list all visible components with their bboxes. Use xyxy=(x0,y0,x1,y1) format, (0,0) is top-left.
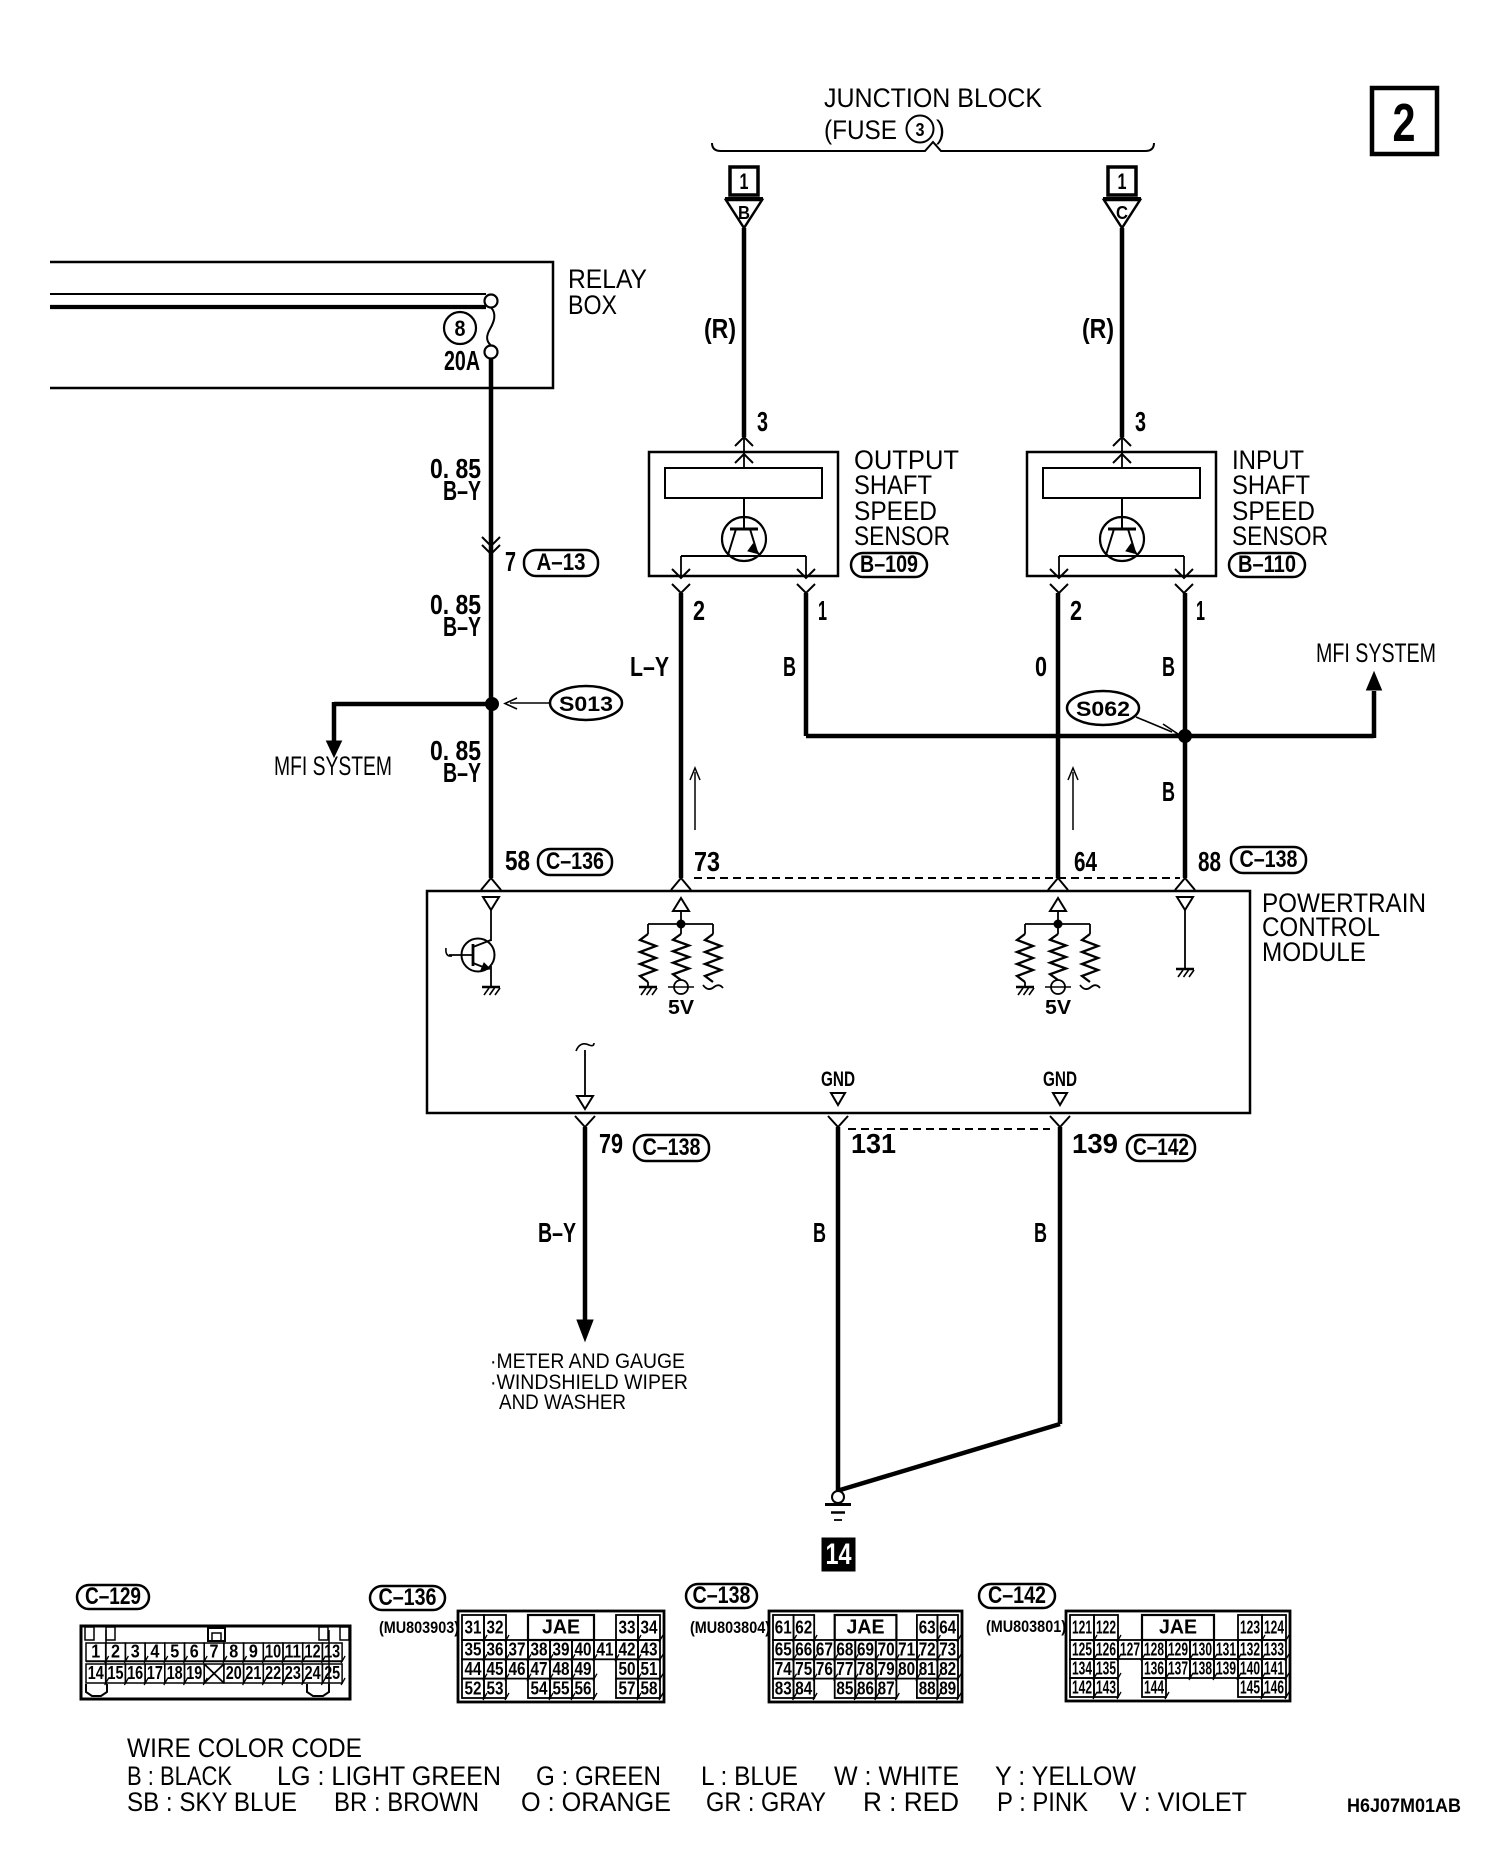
svg-text:74: 74 xyxy=(775,1659,792,1679)
PCM top pin chevrons xyxy=(481,878,501,890)
svg-text:SB : SKY BLUE: SB : SKY BLUE xyxy=(127,1787,297,1817)
svg-text:123: 123 xyxy=(1240,1618,1260,1638)
svg-text:33: 33 xyxy=(619,1618,636,1638)
svg-text:136: 136 xyxy=(1144,1659,1164,1679)
svg-text:B–Y: B–Y xyxy=(443,475,481,506)
svg-text:(R): (R) xyxy=(1082,313,1114,344)
connector C-138 pinout xyxy=(769,1611,962,1702)
svg-text:54: 54 xyxy=(531,1678,548,1698)
splice S062 junction dot xyxy=(1178,729,1192,743)
svg-text:B: B xyxy=(738,203,750,223)
svg-text:7: 7 xyxy=(505,546,516,577)
svg-text:S013: S013 xyxy=(559,693,613,716)
svg-text:14: 14 xyxy=(88,1663,104,1683)
svg-text:15: 15 xyxy=(108,1663,124,1683)
svg-text:44: 44 xyxy=(465,1659,482,1679)
splice S013 junction dot xyxy=(485,697,499,711)
svg-text:1: 1 xyxy=(818,595,827,626)
svg-text:JAE: JAE xyxy=(847,1617,885,1639)
svg-text:69: 69 xyxy=(857,1640,874,1660)
pin 3 chevrons output sensor xyxy=(735,437,753,446)
svg-text:O : ORANGE: O : ORANGE xyxy=(521,1787,671,1817)
connector C-129 label xyxy=(77,1585,149,1609)
svg-text:58: 58 xyxy=(505,845,530,876)
signal direction arrow near 64 xyxy=(1072,772,1074,830)
svg-text:71: 71 xyxy=(898,1640,915,1660)
svg-text:BR : BROWN: BR : BROWN xyxy=(334,1787,479,1817)
svg-text:75: 75 xyxy=(795,1659,812,1679)
svg-text:143: 143 xyxy=(1096,1678,1116,1698)
svg-text:134: 134 xyxy=(1072,1659,1092,1679)
svg-text:BOX: BOX xyxy=(568,290,617,320)
connector C-129 pinout xyxy=(81,1626,350,1699)
output shaft speed sensor box B-109 xyxy=(649,452,838,576)
svg-text:52: 52 xyxy=(465,1678,482,1698)
pin 3 chevrons input sensor xyxy=(1113,437,1131,446)
svg-text:(MU803804): (MU803804) xyxy=(690,1618,770,1637)
wire to MFI SYSTEM (left) xyxy=(334,702,492,707)
wire 79 B-Y to meter and gauge xyxy=(583,1127,588,1322)
svg-text:(MU803801): (MU803801) xyxy=(986,1617,1066,1636)
svg-text:20A: 20A xyxy=(444,345,480,376)
svg-text:133: 133 xyxy=(1264,1640,1284,1660)
svg-text:C–136: C–136 xyxy=(379,1584,437,1611)
svg-text:R : RED: R : RED xyxy=(863,1787,959,1817)
svg-text:14: 14 xyxy=(826,1538,852,1571)
svg-text:·METER AND GAUGE: ·METER AND GAUGE xyxy=(490,1350,685,1373)
svg-text:11: 11 xyxy=(285,1642,301,1662)
wire 139 B to ground 14 xyxy=(1058,1127,1063,1424)
svg-text:66: 66 xyxy=(795,1640,812,1660)
fuse 8 20A xyxy=(485,295,498,308)
PCM 5V pull-up network (pin 64) xyxy=(1050,898,1066,911)
svg-text:34: 34 xyxy=(641,1618,658,1638)
svg-text:P : PINK: P : PINK xyxy=(997,1787,1088,1817)
svg-text:58: 58 xyxy=(641,1678,658,1698)
svg-text:65: 65 xyxy=(775,1640,792,1660)
svg-text:12: 12 xyxy=(305,1642,321,1662)
svg-text:131: 131 xyxy=(851,1128,896,1159)
input shaft speed sensor box B-110 xyxy=(1027,452,1216,576)
svg-text:5: 5 xyxy=(170,1642,179,1662)
svg-text:77: 77 xyxy=(836,1659,853,1679)
svg-text:24: 24 xyxy=(305,1663,321,1683)
PCM transistor ground xyxy=(482,986,500,989)
svg-text:129: 129 xyxy=(1168,1640,1188,1660)
svg-text:C–142: C–142 xyxy=(1133,1134,1189,1161)
wire output pin1 B to splice S062 and MFI xyxy=(804,593,809,736)
connector tag 1-B xyxy=(730,167,758,195)
svg-text:22: 22 xyxy=(265,1663,281,1683)
svg-text:(R): (R) xyxy=(704,313,736,344)
svg-text:3: 3 xyxy=(131,1642,140,1662)
svg-text:JAE: JAE xyxy=(542,1617,580,1639)
svg-text:1: 1 xyxy=(91,1642,100,1662)
svg-text:86: 86 xyxy=(857,1678,874,1698)
svg-text:137: 137 xyxy=(1168,1659,1188,1679)
svg-text:145: 145 xyxy=(1240,1678,1260,1698)
svg-text:140: 140 xyxy=(1240,1659,1260,1679)
svg-text:3: 3 xyxy=(757,406,768,437)
wire input pin1 B to splice S062 xyxy=(1183,593,1188,878)
wire 131 B to ground 14 xyxy=(836,1127,841,1491)
svg-text:135: 135 xyxy=(1096,1659,1116,1679)
PCM transistor Q1 xyxy=(462,939,495,972)
PCM bottom pin chevrons xyxy=(575,1116,595,1127)
dashed connector line C-138 top xyxy=(694,877,1180,879)
svg-text:83: 83 xyxy=(775,1678,792,1698)
svg-text:38: 38 xyxy=(531,1640,548,1660)
svg-text:17: 17 xyxy=(147,1663,163,1683)
svg-text:25: 25 xyxy=(324,1663,340,1683)
splice tag S062 xyxy=(1067,691,1139,725)
svg-text:GR : GRAY: GR : GRAY xyxy=(706,1787,826,1817)
svg-text:WIRE COLOR CODE: WIRE COLOR CODE xyxy=(127,1733,362,1763)
svg-text:35: 35 xyxy=(465,1640,482,1660)
inline connector A-13 pin 7 chevrons xyxy=(482,537,500,546)
connector C-142 label xyxy=(979,1584,1055,1608)
svg-text:142: 142 xyxy=(1072,1678,1092,1698)
svg-text:72: 72 xyxy=(919,1640,936,1660)
svg-text:2: 2 xyxy=(111,1642,120,1662)
svg-text:B–Y: B–Y xyxy=(443,611,481,642)
svg-text:121: 121 xyxy=(1072,1618,1092,1638)
svg-text:1: 1 xyxy=(1118,169,1127,194)
svg-text:JAE: JAE xyxy=(1159,1617,1197,1639)
wire output pin2 L-Y to PCM 73 xyxy=(679,593,684,878)
svg-text:122: 122 xyxy=(1096,1618,1116,1638)
svg-text:87: 87 xyxy=(878,1678,895,1698)
svg-text:L–Y: L–Y xyxy=(630,651,669,682)
svg-text:1: 1 xyxy=(740,169,749,194)
wire input pin2 O to PCM 64 xyxy=(1056,593,1061,878)
svg-text:2: 2 xyxy=(693,595,705,626)
svg-text:138: 138 xyxy=(1192,1659,1212,1679)
svg-text:41: 41 xyxy=(597,1640,614,1660)
svg-text:40: 40 xyxy=(575,1640,592,1660)
svg-text:39: 39 xyxy=(553,1640,570,1660)
page number box 2 xyxy=(1372,88,1437,154)
svg-text:144: 144 xyxy=(1144,1678,1164,1698)
svg-text:SENSOR: SENSOR xyxy=(1232,521,1328,551)
svg-text:64: 64 xyxy=(939,1618,956,1638)
svg-text:131: 131 xyxy=(1216,1640,1236,1660)
svg-text:B–Y: B–Y xyxy=(443,757,481,788)
connector C-138 label xyxy=(686,1584,757,1608)
svg-text:(MU803903): (MU803903) xyxy=(379,1618,459,1637)
svg-text:88: 88 xyxy=(1198,846,1221,877)
svg-text:127: 127 xyxy=(1120,1640,1140,1660)
svg-text:SENSOR: SENSOR xyxy=(854,521,950,551)
svg-text:51: 51 xyxy=(641,1659,658,1679)
svg-text:76: 76 xyxy=(816,1659,833,1679)
svg-text:(FUSE: (FUSE xyxy=(824,115,897,145)
svg-text:139: 139 xyxy=(1072,1128,1118,1159)
svg-text:C–138: C–138 xyxy=(643,1134,701,1161)
svg-text:62: 62 xyxy=(795,1618,812,1638)
MFI SYSTEM arrow (right) xyxy=(1367,672,1382,690)
svg-text:132: 132 xyxy=(1240,1640,1260,1660)
svg-text:82: 82 xyxy=(939,1659,956,1679)
svg-text:MFI SYSTEM: MFI SYSTEM xyxy=(274,751,392,781)
svg-text:16: 16 xyxy=(127,1663,143,1683)
PCM pin 58 input triangle xyxy=(483,897,499,910)
svg-text:73: 73 xyxy=(694,846,720,877)
svg-text:B: B xyxy=(1162,651,1175,682)
svg-text:124: 124 xyxy=(1264,1618,1284,1638)
svg-text:AND WASHER: AND WASHER xyxy=(499,1391,626,1414)
svg-text:31: 31 xyxy=(465,1618,482,1638)
svg-text:68: 68 xyxy=(836,1640,853,1660)
svg-text:56: 56 xyxy=(575,1678,592,1698)
svg-text:3: 3 xyxy=(916,120,925,140)
svg-text:47: 47 xyxy=(531,1659,548,1679)
connector tag 1-C xyxy=(1108,167,1136,195)
svg-text:32: 32 xyxy=(487,1618,504,1638)
connector C-142 pinout xyxy=(1066,1611,1290,1701)
svg-text:85: 85 xyxy=(836,1678,853,1698)
svg-text:37: 37 xyxy=(509,1640,526,1660)
svg-text:64: 64 xyxy=(1074,846,1097,877)
svg-text:79: 79 xyxy=(878,1659,895,1679)
svg-text:MODULE: MODULE xyxy=(1262,937,1366,967)
svg-text:JUNCTION BLOCK: JUNCTION BLOCK xyxy=(824,83,1042,113)
svg-text:13: 13 xyxy=(324,1642,340,1662)
svg-text:50: 50 xyxy=(619,1659,636,1679)
svg-text:B: B xyxy=(783,651,796,682)
svg-text:9: 9 xyxy=(249,1642,258,1662)
svg-text:84: 84 xyxy=(795,1678,812,1698)
powertrain control module box xyxy=(427,891,1250,1113)
svg-text:61: 61 xyxy=(775,1618,792,1638)
svg-text:C: C xyxy=(1116,203,1128,223)
svg-text:): ) xyxy=(936,115,945,145)
svg-text:B–Y: B–Y xyxy=(538,1217,576,1248)
svg-text:A–13: A–13 xyxy=(537,549,586,576)
svg-text:4: 4 xyxy=(150,1642,159,1662)
svg-text:80: 80 xyxy=(898,1659,915,1679)
svg-text:8: 8 xyxy=(455,316,466,341)
svg-text:3: 3 xyxy=(1135,406,1146,437)
svg-text:88: 88 xyxy=(919,1678,936,1698)
connector C-136 pinout xyxy=(458,1611,664,1702)
svg-text:MFI SYSTEM: MFI SYSTEM xyxy=(1316,638,1436,668)
svg-text:146: 146 xyxy=(1264,1678,1284,1698)
body ground 14 xyxy=(832,1491,844,1503)
svg-text:B: B xyxy=(1162,776,1175,807)
svg-text:B–110: B–110 xyxy=(1238,551,1296,578)
dashed connector line C-142 bottom xyxy=(848,1128,1050,1130)
svg-text:GND: GND xyxy=(1043,1068,1077,1091)
svg-text:53: 53 xyxy=(487,1678,504,1698)
svg-text:1: 1 xyxy=(1196,595,1205,626)
signal direction arrow near 73 xyxy=(694,772,696,830)
svg-text:19: 19 xyxy=(186,1663,202,1683)
svg-text:21: 21 xyxy=(245,1663,261,1683)
svg-text:46: 46 xyxy=(509,1659,526,1679)
svg-text:42: 42 xyxy=(619,1640,636,1660)
svg-text:C–142: C–142 xyxy=(988,1582,1046,1609)
PCM 5V pull-up network (pin 73) xyxy=(673,898,689,911)
svg-text:S062: S062 xyxy=(1076,698,1130,721)
svg-text:18: 18 xyxy=(167,1663,183,1683)
svg-text:B–109: B–109 xyxy=(860,551,918,578)
svg-text:C–138: C–138 xyxy=(693,1582,751,1609)
svg-text:2: 2 xyxy=(1070,595,1082,626)
svg-text:70: 70 xyxy=(878,1640,895,1660)
svg-text:2: 2 xyxy=(1393,93,1416,153)
svg-text:C–138: C–138 xyxy=(1240,846,1298,873)
svg-text:79: 79 xyxy=(599,1128,623,1159)
svg-text:V : VIOLET: V : VIOLET xyxy=(1120,1787,1247,1817)
connector C-136 label xyxy=(370,1586,445,1610)
svg-text:48: 48 xyxy=(553,1659,570,1679)
splice tag S013 xyxy=(550,686,622,720)
relay box bus bars xyxy=(50,293,486,295)
svg-text:GND: GND xyxy=(821,1068,855,1091)
svg-text:128: 128 xyxy=(1144,1640,1164,1660)
svg-text:81: 81 xyxy=(919,1659,936,1679)
svg-text:78: 78 xyxy=(857,1659,874,1679)
PCM pin 79 internal lead xyxy=(576,1043,594,1051)
relay box xyxy=(50,262,553,388)
svg-text:0: 0 xyxy=(1035,651,1047,682)
svg-text:141: 141 xyxy=(1264,1659,1284,1679)
svg-text:73: 73 xyxy=(939,1640,956,1660)
svg-text:7: 7 xyxy=(210,1642,219,1662)
svg-text:67: 67 xyxy=(816,1640,833,1660)
svg-text:126: 126 xyxy=(1096,1640,1116,1660)
wire fuse C to input sensor pin 3 (R) xyxy=(1120,228,1125,437)
svg-text:57: 57 xyxy=(619,1678,636,1698)
svg-text:5V: 5V xyxy=(668,997,695,1019)
svg-text:36: 36 xyxy=(487,1640,504,1660)
svg-text:139: 139 xyxy=(1216,1659,1236,1679)
svg-text:B: B xyxy=(813,1217,826,1248)
PCM pin 88 ground path xyxy=(1177,897,1193,910)
svg-text:55: 55 xyxy=(553,1678,570,1698)
svg-text:23: 23 xyxy=(285,1663,301,1683)
svg-text:10: 10 xyxy=(265,1642,281,1662)
svg-text:C–129: C–129 xyxy=(85,1583,141,1610)
wire fuse to PCM pin 58 (0.85 B-Y) xyxy=(489,358,494,878)
svg-text:5V: 5V xyxy=(1045,997,1072,1019)
svg-text:20: 20 xyxy=(226,1663,242,1683)
svg-text:49: 49 xyxy=(575,1659,592,1679)
svg-text:43: 43 xyxy=(641,1640,658,1660)
svg-text:89: 89 xyxy=(939,1678,956,1698)
svg-text:63: 63 xyxy=(919,1618,936,1638)
svg-text:130: 130 xyxy=(1192,1640,1212,1660)
svg-text:C–136: C–136 xyxy=(546,848,604,875)
wire fuse B to output sensor pin 3 (R) xyxy=(742,228,747,437)
junction block brace xyxy=(712,142,1154,151)
svg-text:8: 8 xyxy=(229,1642,238,1662)
svg-text:H6J07M01AB: H6J07M01AB xyxy=(1347,1796,1461,1817)
svg-text:125: 125 xyxy=(1072,1640,1092,1660)
svg-text:6: 6 xyxy=(190,1642,199,1662)
svg-text:45: 45 xyxy=(487,1659,504,1679)
svg-text:B: B xyxy=(1034,1217,1047,1248)
